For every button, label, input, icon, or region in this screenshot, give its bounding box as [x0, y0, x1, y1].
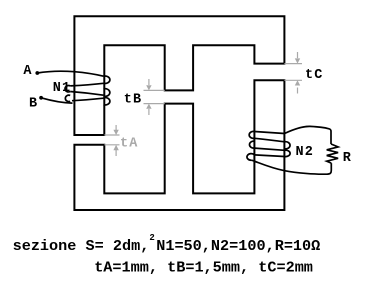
coil N1 crossing 4: [72, 98, 104, 101]
svg-text:tB: tB: [124, 93, 143, 108]
svg-text:A: A: [23, 64, 32, 79]
air gap tC arrows: [295, 52, 300, 94]
coil N2 bulge right 1: [285, 142, 291, 149]
air gap tB extension lines: [144, 90, 165, 103]
wire resistor R bottom to coil N2: [252, 160, 332, 174]
core lower piece: [74, 80, 284, 210]
air gap tB arrows: [146, 79, 151, 115]
coil N2 bulge right 2: [285, 150, 291, 156]
terminal B: [39, 96, 43, 100]
svg-text:R: R: [343, 151, 352, 166]
coil N1 bulge left 2: [65, 95, 70, 101]
svg-text:N2: N2: [296, 145, 315, 160]
air gap tC extension lines: [284, 64, 302, 81]
coil N2 crossing 4: [255, 155, 285, 157]
resistor R: [327, 144, 338, 163]
svg-text:tA: tA: [120, 136, 139, 151]
core upper piece: [74, 16, 284, 135]
svg-text:tA=1mm, tB=1,5mm, tC=2mm: tA=1mm, tB=1,5mm, tC=2mm: [94, 259, 313, 277]
svg-text:sezione S= 2dm,2N1=50,N2=100,R: sezione S= 2dm,2N1=50,N2=100,R=10Ω: [13, 233, 321, 255]
coil N2 bulge left 3: [247, 154, 255, 161]
wire from A into coil N1 first turn: [37, 71, 103, 76]
coil N2 crossing 2: [255, 138, 285, 142]
wire coil N2 top to resistor R: [285, 126, 332, 144]
wire from B into coil N1 last turn: [41, 98, 72, 103]
terminal A: [35, 71, 39, 75]
coil N1 bulge left 1: [65, 86, 70, 92]
coil N1 crossing 2: [70, 83, 103, 86]
air gap tA arrows: [113, 125, 118, 156]
coil N1 bulge right 2: [104, 89, 110, 97]
coil N2 crossing 1: [255, 132, 285, 134]
coil N1 bulge right 3: [104, 98, 110, 105]
coil N1 crossing 3: [70, 92, 103, 96]
svg-text:tC: tC: [305, 68, 324, 83]
svg-text:N1: N1: [53, 81, 72, 96]
coil N1 turn bulge right 1: [104, 76, 110, 83]
coil N2 bulge left 1: [249, 131, 254, 138]
coil N2 crossing 3: [255, 148, 285, 150]
svg-text:B: B: [29, 97, 38, 112]
air gap tA extension lines: [104, 135, 119, 145]
coil N2 bulge left 2: [249, 141, 254, 148]
